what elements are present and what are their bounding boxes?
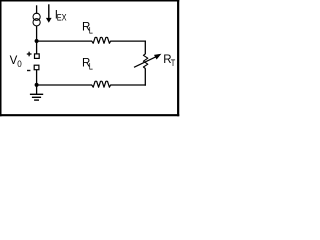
wire top horizontal right segment <box>111 40 145 42</box>
plus sign <box>27 52 32 57</box>
border frame <box>0 0 179 116</box>
current source IEX (two overlapping circles) <box>33 13 40 26</box>
arrow across RT (variable) <box>134 54 161 68</box>
ground symbol <box>30 94 43 100</box>
wire right vertical upper segment <box>144 41 146 55</box>
terminal square - <box>34 65 39 70</box>
ground stem <box>36 85 38 94</box>
wire bottom horizontal right segment <box>111 84 145 86</box>
svg-text:V: V <box>10 55 18 67</box>
wire from current source to node junction and + terminal <box>36 26 38 54</box>
wire bottom horizontal left segment <box>37 84 92 86</box>
resistor RL (top) zigzag <box>92 37 112 43</box>
svg-text:L: L <box>89 24 93 35</box>
wire from - terminal down to bottom junction <box>36 70 38 85</box>
terminal square + <box>35 54 40 59</box>
thermistor RT vertical zigzag <box>143 54 147 69</box>
resistor RL (bottom) zigzag <box>92 81 112 87</box>
junction node dot (top) <box>35 39 39 43</box>
svg-text:L: L <box>89 61 93 72</box>
wire top horizontal left segment <box>37 40 92 42</box>
svg-text:0: 0 <box>17 59 22 70</box>
junction node dot (bottom) <box>35 83 39 87</box>
arrow IEX (downward) <box>46 4 52 23</box>
svg-text:T: T <box>171 57 176 68</box>
wire right vertical lower segment <box>144 68 146 85</box>
wire top feed into current source <box>36 5 38 14</box>
minus sign <box>27 70 30 72</box>
svg-text:EX: EX <box>57 12 67 23</box>
